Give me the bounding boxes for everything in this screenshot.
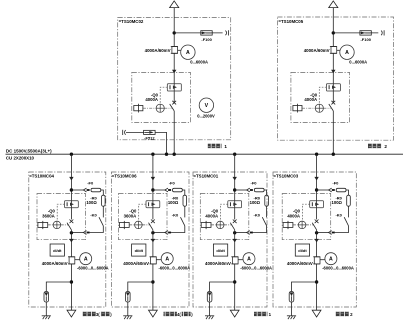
svg-text:3600A: 3600A <box>42 213 55 218</box>
position indicator circle <box>298 221 306 229</box>
ammeter A <box>161 253 173 265</box>
feeder name label <box>336 312 349 317</box>
ammeter A <box>181 45 195 59</box>
wire: connector to -F512 <box>126 131 144 133</box>
svg-text:=TS10MC06: =TS10MC06 <box>112 173 137 178</box>
surge arrester <box>126 292 131 303</box>
wire: shunt to ammeter <box>178 49 181 51</box>
wire: fuse to resistor <box>182 190 185 195</box>
flow arrow down <box>69 177 73 181</box>
overcurrent relay I> <box>326 84 340 91</box>
shunt 4000A/60mV <box>232 257 238 264</box>
breaker drive coil <box>283 223 293 228</box>
wire: fuse to resistor <box>346 190 349 195</box>
feeder outgoing arrow <box>149 310 158 317</box>
dashed link relay to breaker <box>319 87 326 104</box>
wire: bypass rejoin <box>71 232 83 234</box>
node: bypass rejoin <box>151 231 154 234</box>
svg-text:-F0: -F0 <box>332 180 339 185</box>
wire: breaker to feeder exit <box>316 230 318 310</box>
svg-text:4000A: 4000A <box>287 213 300 218</box>
feeder name label <box>82 312 95 317</box>
ground <box>123 315 132 317</box>
svg-text:3(: 3( <box>96 312 100 317</box>
feeder cabinet box =TS10MC03 <box>273 172 356 307</box>
position indicator circle <box>315 104 323 112</box>
di/dt relay <box>295 244 309 256</box>
feeder cabinet box =TS10MC06 <box>111 172 189 307</box>
svg-text:A: A <box>186 50 190 56</box>
svg-text:4000A/60mV: 4000A/60mV <box>304 48 330 53</box>
wire: resistor to contactor <box>266 206 268 217</box>
node: bypass rejoin <box>315 231 318 234</box>
circuit breaker -Q0 contact <box>331 101 335 105</box>
withdrawable contact (top) <box>83 188 86 192</box>
wire: bus to breaker <box>152 154 154 219</box>
wire: contactor to bottom chevron <box>90 226 104 233</box>
dashed link relay to breaker <box>57 204 64 221</box>
node: branch to surge arrester <box>315 280 318 283</box>
position indicator circle <box>216 221 224 229</box>
surge arrester -F100 <box>201 31 212 35</box>
svg-text:A: A <box>247 257 251 263</box>
node: incomer on bus <box>332 153 335 156</box>
wire: bypass rejoin <box>235 232 247 234</box>
ammeter A <box>340 45 354 59</box>
incomer cabinet box =TS10MC05 <box>278 17 394 140</box>
svg-text:-6000...0...6000A: -6000...0...6000A <box>240 266 272 271</box>
arrow out of breaker unit <box>314 239 318 243</box>
wire: shunt to ammeter <box>238 259 243 261</box>
circuit breaker -Q0 3600A contact <box>151 220 155 224</box>
flow arrow down <box>233 177 237 181</box>
breaker drive coil <box>38 223 48 228</box>
shunt 4000A/60mV <box>69 257 75 264</box>
node: incomer on bus <box>173 153 176 156</box>
svg-text:di/dt: di/dt <box>53 248 62 253</box>
wire: top bypass branch <box>71 189 83 191</box>
svg-text:4000A: 4000A <box>304 97 317 102</box>
node: branch to bypass <box>151 188 154 191</box>
svg-text:100Ω: 100Ω <box>332 200 343 205</box>
breaker drive coil <box>293 106 302 111</box>
breaker drive coil <box>134 106 143 111</box>
arrow out of breaker unit <box>233 239 237 243</box>
wire: to surge arrester <box>128 282 153 292</box>
svg-text:100Ω: 100Ω <box>86 200 97 205</box>
withdrawable breaker unit enclosure <box>282 194 331 240</box>
wire: top bypass branch <box>235 189 247 191</box>
withdrawable breaker unit enclosure <box>291 72 350 122</box>
svg-text:=TS10MC03: =TS10MC03 <box>273 173 298 178</box>
svg-text:-K0: -K0 <box>172 212 179 217</box>
node: tap to -F100 <box>332 31 335 34</box>
flow arrow down <box>314 177 318 181</box>
node: branch to surge arrester <box>70 280 73 283</box>
svg-text:0...6000A: 0...6000A <box>349 60 367 65</box>
wire: arrester to ground <box>45 302 47 316</box>
fuse -F0 <box>91 188 101 192</box>
wire: to surge arrester <box>46 282 71 292</box>
wire: bus to breaker <box>70 154 72 219</box>
shunt 4000A/60mV <box>151 257 157 264</box>
svg-text:-F0: -F0 <box>251 180 258 185</box>
fuse -F0 <box>254 188 264 192</box>
svg-text:1: 1 <box>224 144 227 149</box>
feeder outgoing arrow <box>67 310 76 317</box>
node: branch to bypass <box>233 188 236 191</box>
svg-text:di/dt: di/dt <box>216 248 225 253</box>
node: feeder tap on bus <box>315 153 318 156</box>
feeder outgoing arrow <box>312 310 321 317</box>
svg-text:-F100: -F100 <box>360 37 371 42</box>
connector at left wall (-F512) <box>122 130 124 135</box>
wire: breaker to bus <box>332 111 334 154</box>
wire: branch to -F100 <box>174 32 222 34</box>
wire: main incomer line upper <box>332 8 334 103</box>
position indicator circle <box>53 221 61 229</box>
svg-text:0...6000A: 0...6000A <box>190 60 208 65</box>
breaker drive coil <box>119 223 129 228</box>
wire: shunt to ammeter <box>337 49 340 51</box>
svg-text:A: A <box>345 50 349 56</box>
svg-text:A: A <box>84 257 88 263</box>
incoming feed arrow (from rectifier) <box>329 1 338 8</box>
svg-text:2: 2 <box>384 144 387 149</box>
resistor -R0 100Ohm <box>347 195 351 206</box>
circuit breaker -Q0 contact <box>172 101 176 105</box>
wire: breaker to bus <box>173 111 175 154</box>
wire: to surge arrester <box>292 282 317 292</box>
ammeter A <box>325 253 337 265</box>
svg-text:-K0: -K0 <box>254 212 261 217</box>
withdrawable contact (top) <box>329 188 332 192</box>
feeder cabinet box =TS10MC04 <box>29 172 106 307</box>
cabinet name label <box>368 144 382 149</box>
wire: branch to -F100 <box>333 32 378 34</box>
connector to cabinet wall (-F100 outlet) <box>383 30 385 35</box>
wire: to surge arrester <box>210 282 235 292</box>
connector to cabinet wall (-F100 outlet) <box>227 30 229 35</box>
overcurrent relay I> <box>65 201 79 208</box>
svg-text:4000A/60mV: 4000A/60mV <box>145 48 171 53</box>
circuit breaker -Q0 3600A contact <box>70 220 74 224</box>
svg-text:4000A/60mV: 4000A/60mV <box>205 261 231 266</box>
wire: shunt to ammeter <box>320 259 325 261</box>
breaker drive coil <box>201 223 211 228</box>
wire: arrester to ground <box>127 302 129 316</box>
svg-text:4000A/60mV: 4000A/60mV <box>123 261 149 266</box>
wire: arrester to ground <box>291 302 293 316</box>
svg-text:=TS10MC01: =TS10MC01 <box>193 173 218 178</box>
svg-text:=TS10MC04: =TS10MC04 <box>29 173 54 178</box>
svg-text:-F512: -F512 <box>144 135 155 140</box>
wire: main incomer line upper <box>173 8 175 103</box>
overcurrent relay I> <box>167 84 181 91</box>
arrow out of breaker unit <box>69 239 73 243</box>
wire: arrester to ground <box>209 302 211 316</box>
dash-dot link coil-indicator-breaker <box>129 224 134 226</box>
wire: bypass rejoin <box>317 232 329 234</box>
surge arrester <box>207 292 212 303</box>
node: feeder tap on bus <box>70 153 73 156</box>
dash-dot link coil-indicator-breaker <box>211 224 216 226</box>
wire: top bypass branch <box>153 189 165 191</box>
ground <box>42 315 51 317</box>
svg-text:-F100: -F100 <box>201 37 212 42</box>
node: branch to surge arrester <box>151 280 154 283</box>
node: bypass rejoin <box>233 231 236 234</box>
svg-text:di/dt: di/dt <box>135 248 144 253</box>
incomer cabinet box =TS10MC02 <box>118 18 231 140</box>
incoming feed arrow (from rectifier) <box>170 1 179 8</box>
wire: contactor to bottom chevron <box>335 226 349 233</box>
feeder name label <box>164 312 177 317</box>
wire: fuse to resistor <box>101 190 104 195</box>
shunt 4000A/60mV <box>314 257 320 264</box>
svg-text:3600A: 3600A <box>124 213 137 218</box>
wire: shunt to ammeter <box>156 259 161 261</box>
wire: bus to breaker <box>316 154 318 219</box>
shunt 4000A/60mV <box>172 47 178 54</box>
ammeter A <box>243 253 255 265</box>
wire: -F512 to bus <box>155 132 166 154</box>
node: tap to -F100 <box>173 31 176 34</box>
node: feeder tap on bus <box>233 153 236 156</box>
overcurrent relay I> <box>146 201 160 208</box>
wire: fuse to resistor <box>264 190 267 195</box>
svg-text:100Ω: 100Ω <box>250 200 261 205</box>
svg-text:DC 1500V,5500A(3L+): DC 1500V,5500A(3L+) <box>6 148 52 153</box>
wire: bus to breaker <box>234 154 236 219</box>
feeder outgoing arrow <box>230 310 239 317</box>
svg-text:4(: 4( <box>177 312 181 317</box>
wire: top bypass branch <box>317 189 329 191</box>
svg-text:-K0: -K0 <box>90 212 97 217</box>
cabinet name label <box>208 144 222 149</box>
svg-text:-6000...0...6000A: -6000...0...6000A <box>159 266 191 271</box>
wire: resistor to contactor <box>348 206 350 217</box>
dash-dot link coil-indicator-breaker <box>143 107 156 109</box>
svg-text:-6000...0...6000A: -6000...0...6000A <box>77 266 109 271</box>
svg-text:di/dt: di/dt <box>298 248 307 253</box>
svg-text:4000A: 4000A <box>145 97 158 102</box>
svg-text:V: V <box>205 103 209 109</box>
position indicator circle <box>135 221 143 229</box>
node: branch to bypass <box>315 188 318 191</box>
withdrawable breaker unit enclosure <box>37 194 86 240</box>
svg-text:=TS10MC05: =TS10MC05 <box>278 19 303 24</box>
resistor -R0 100Ohm <box>183 195 187 206</box>
withdrawable contact (bottom) <box>329 231 332 235</box>
wire: breaker to feeder exit <box>152 230 154 310</box>
svg-text:-6000...0...6000A: -6000...0...6000A <box>322 266 354 271</box>
svg-text:100Ω: 100Ω <box>168 200 179 205</box>
overcurrent relay I> <box>310 201 324 208</box>
wire: shunt to ammeter <box>75 259 80 261</box>
wire: breaker to feeder exit <box>234 230 236 310</box>
fuse -F0 <box>173 188 183 192</box>
svg-text:A: A <box>329 257 333 263</box>
svg-text:-F0: -F0 <box>169 180 176 185</box>
svg-text:A: A <box>165 257 169 263</box>
voltmeter V <box>199 98 213 112</box>
arrow out of breaker unit <box>151 239 155 243</box>
di/dt relay <box>50 244 64 256</box>
dashed link relay to breaker <box>139 204 146 221</box>
di/dt relay <box>213 244 227 256</box>
feeder name label <box>254 312 267 317</box>
withdrawable contact (bottom) <box>165 231 168 235</box>
svg-text:0...2000V: 0...2000V <box>197 113 215 118</box>
wire: breaker to feeder exit <box>70 230 72 310</box>
dash-dot link coil-indicator-breaker <box>293 224 298 226</box>
svg-text:CU 2X200X10: CU 2X200X10 <box>6 156 35 161</box>
resistor -R0 100Ohm <box>102 195 106 206</box>
withdrawable contact (bottom) <box>247 231 250 235</box>
node: branch to surge arrester <box>233 280 236 283</box>
flow arrow down <box>151 177 155 181</box>
wire: DC main bus <box>6 153 404 155</box>
shunt 4000A/60mV <box>331 47 337 54</box>
di/dt relay <box>132 244 146 256</box>
surge arrester -F512 <box>144 130 156 134</box>
ammeter A <box>80 253 92 265</box>
dashed link relay to breaker <box>160 87 167 104</box>
wire: bypass rejoin <box>153 232 165 234</box>
wire: resistor to contactor <box>184 206 186 217</box>
ground <box>287 315 296 317</box>
resistor -R0 100Ohm <box>265 195 269 206</box>
svg-text:-F0: -F0 <box>87 180 94 185</box>
node: feeder tap on bus <box>151 153 154 156</box>
surge arrester -F100 <box>360 31 371 35</box>
surge arrester <box>289 292 294 303</box>
wire: resistor to contactor <box>102 206 104 217</box>
position indicator circle <box>156 104 164 112</box>
svg-text:4000A/60mV: 4000A/60mV <box>42 261 68 266</box>
dashed link relay to breaker <box>221 204 228 221</box>
withdrawable contact (top) <box>247 188 250 192</box>
dash-dot link coil-indicator-breaker <box>48 224 53 226</box>
svg-text:4000A: 4000A <box>205 213 218 218</box>
overcurrent relay I> <box>228 201 242 208</box>
withdrawable breaker unit enclosure <box>132 72 191 122</box>
circuit breaker -Q0 4000A contact <box>233 220 237 224</box>
withdrawable breaker unit enclosure <box>119 194 168 240</box>
withdrawable contact (bottom) <box>83 231 86 235</box>
circuit breaker -Q0 4000A contact <box>315 220 319 224</box>
node: branch to bypass <box>70 188 73 191</box>
svg-text:4000A/60mV: 4000A/60mV <box>287 261 313 266</box>
arrow into breaker unit <box>172 70 176 74</box>
node: -F512 on bus <box>165 153 168 156</box>
wire: contactor to bottom chevron <box>171 226 185 233</box>
feeder cabinet box =TS10MC01 <box>193 172 267 307</box>
svg-text:=TS10MC02: =TS10MC02 <box>119 19 144 24</box>
fuse -F0 <box>336 188 346 192</box>
withdrawable breaker unit enclosure <box>200 194 249 240</box>
arrow into breaker unit <box>331 70 335 74</box>
node: bypass rejoin <box>70 231 73 234</box>
dashed link relay to breaker <box>302 204 309 221</box>
withdrawable contact (top) <box>165 188 168 192</box>
surge arrester <box>44 292 49 303</box>
dash-dot link coil-indicator-breaker <box>302 107 315 109</box>
svg-text:-K0: -K0 <box>335 212 342 217</box>
wire: contactor to bottom chevron <box>253 226 267 233</box>
ground <box>205 315 214 317</box>
